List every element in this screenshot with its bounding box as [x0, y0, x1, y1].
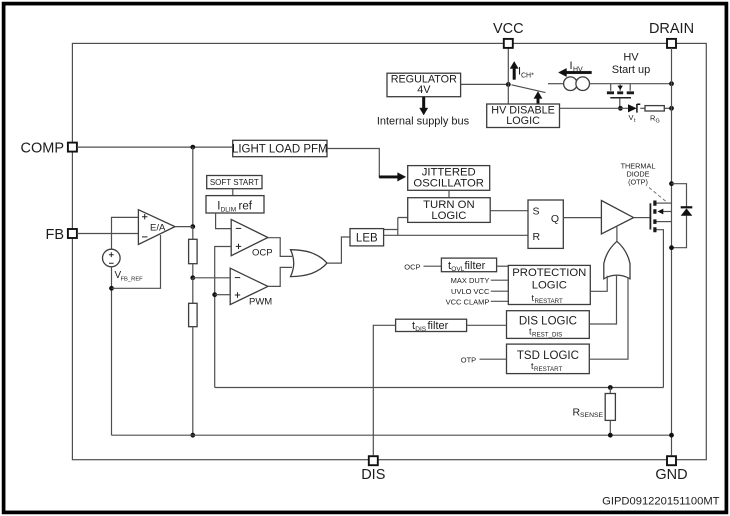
svg-text:SENSE: SENSE — [580, 412, 604, 419]
arrow internal supply bus — [420, 97, 428, 115]
svg-text:OTP: OTP — [461, 355, 476, 364]
protection logic block — [508, 265, 590, 304]
svg-text:G: G — [656, 119, 660, 125]
comparator OCP — [231, 219, 272, 258]
svg-text:REST_DIS: REST_DIS — [532, 331, 562, 338]
node gate / lower wire — [618, 106, 623, 111]
wire E/A feedback to node — [112, 235, 161, 288]
wire OR2 output to driver — [616, 227, 618, 242]
label thermal diode (OTP) — [621, 161, 666, 201]
wire sense rail to OCP plus — [215, 247, 232, 388]
wire soft start to idlim ref — [232, 189, 234, 196]
wire E/A non-inverting input to VFB_REF — [112, 217, 139, 249]
tOVL filter block — [441, 258, 496, 273]
svg-text:filter: filter — [428, 320, 449, 332]
wire current sense rail — [215, 387, 664, 389]
thermal diode D-OTP — [672, 184, 693, 248]
wire OTP to TSD logic — [480, 358, 507, 360]
wire OR1 output to LEB — [327, 237, 350, 263]
svg-text:GND: GND — [655, 467, 687, 483]
svg-text:CH*: CH* — [521, 73, 534, 80]
jittered oscillator block — [408, 166, 490, 191]
svg-text:R: R — [533, 231, 541, 243]
power MOSFET Q1 channel segments — [653, 201, 656, 233]
svg-text:Q: Q — [551, 213, 559, 225]
svg-text:GIPD091220151100MT: GIPD091220151100MT — [602, 496, 720, 508]
svg-text:LOGIC: LOGIC — [532, 280, 567, 292]
svg-text:DRAIN: DRAIN — [649, 21, 694, 37]
node Rsense top — [608, 385, 613, 390]
svg-text:S: S — [533, 206, 540, 218]
svg-text:OCP: OCP — [404, 262, 420, 271]
svg-text:HV: HV — [623, 52, 639, 64]
svg-text:VCC CLAMP: VCC CLAMP — [446, 297, 490, 306]
svg-text:Internal supply bus: Internal supply bus — [377, 116, 470, 128]
node top wire / drain line — [669, 81, 674, 86]
svg-text:UVLO VCC: UVLO VCC — [451, 287, 490, 296]
comparator PWM — [230, 268, 272, 307]
OR gate U-OR1 — [291, 250, 328, 277]
node R2 bottom / ground rail — [190, 433, 195, 438]
node source / diode anode — [669, 245, 674, 250]
label document id — [602, 496, 720, 508]
resistor RG — [645, 106, 664, 125]
node VFB_REF ground tap — [109, 286, 114, 291]
svg-text:SOFT START: SOFT START — [210, 178, 259, 187]
svg-text:filter: filter — [465, 260, 486, 272]
svg-text:TSD LOGIC: TSD LOGIC — [517, 350, 579, 362]
svg-text:LOGIC: LOGIC — [431, 210, 466, 222]
svg-text:RESTART: RESTART — [534, 366, 563, 373]
wire VFB_REF down — [111, 267, 113, 435]
light load pfm block — [232, 140, 328, 156]
power MOSFET Q1 body stub with arrow — [658, 209, 672, 215]
wire TSD logic to OR2 — [589, 278, 628, 359]
latch U-SR — [528, 200, 563, 248]
turn on logic block — [408, 198, 491, 223]
label OCP input — [404, 262, 420, 271]
wire RG to drain line — [664, 107, 671, 109]
wire PWM output to OR — [268, 267, 292, 286]
pin DIS — [361, 456, 385, 483]
wire driver to gate — [634, 217, 650, 219]
switch blade HV disable — [512, 85, 546, 93]
resistor RSENSE — [573, 388, 616, 436]
svg-text:OSCILLATOR: OSCILLATOR — [413, 177, 484, 189]
label Internal supply bus — [377, 116, 470, 128]
svg-text:DLIM: DLIM — [221, 206, 237, 213]
wire diode to RG — [640, 107, 645, 109]
HV start-up MOSFET Q-HV — [607, 84, 634, 109]
label OTP input — [461, 355, 476, 364]
svg-text:DIS: DIS — [415, 326, 427, 333]
inner IC boundary rectangle — [72, 43, 706, 459]
current arrow ICH* — [510, 62, 534, 80]
wire switch to current source — [548, 83, 564, 85]
svg-text:FB: FB — [45, 227, 64, 243]
wire COMP rail vertical — [192, 147, 194, 227]
wire VCC pin down to HV disable logic — [507, 48, 509, 104]
svg-text:(OTP): (OTP) — [628, 178, 648, 187]
wire OCP output to OR — [268, 238, 292, 257]
source VFB_REF — [103, 249, 144, 282]
wire drain vertical rail — [671, 48, 673, 455]
TSD logic block — [507, 344, 590, 374]
svg-text:LOGIC: LOGIC — [506, 115, 540, 127]
svg-text:DIS: DIS — [361, 467, 385, 483]
power MOSFET Q1 gate bar — [649, 203, 651, 229]
driver buffer U-DRV — [601, 201, 633, 235]
soft start block — [207, 176, 262, 189]
arrow from HV disable logic to switch — [534, 92, 542, 105]
power MOSFET Q1 source stub — [657, 230, 664, 388]
svg-text:E/A: E/A — [150, 223, 166, 234]
OR gate U-OR2 (protection, points up) — [604, 241, 630, 278]
wire HV disable logic to Vt diode — [560, 107, 629, 109]
svg-text:Start up: Start up — [612, 64, 651, 76]
wire E/A output — [175, 226, 193, 228]
wire regulator output to VCC node — [461, 83, 509, 85]
tDIS filter block — [396, 319, 467, 333]
pin COMP — [21, 140, 77, 156]
power MOSFET Q1 drain stub — [657, 202, 672, 204]
svg-text:OVL: OVL — [451, 266, 464, 273]
svg-text:COMP: COMP — [21, 140, 65, 156]
svg-text:PROTECTION: PROTECTION — [512, 267, 586, 279]
svg-text:HV: HV — [573, 67, 583, 74]
wire OCP label to tovl filter — [424, 265, 442, 267]
svg-text:RESTART: RESTART — [535, 298, 564, 305]
svg-text:4V: 4V — [417, 84, 431, 96]
wire DIS logic to OR2 — [589, 275, 616, 325]
svg-text:MAX DUTY: MAX DUTY — [451, 276, 490, 285]
svg-text:ref: ref — [239, 200, 253, 212]
wire ground rail — [112, 434, 672, 436]
HV disable logic block — [487, 104, 560, 128]
svg-text:PWM: PWM — [249, 297, 272, 308]
wire idlim ref to OCP inverting input — [216, 213, 232, 229]
node Rsense bottom — [608, 433, 613, 438]
svg-text:FB_REF: FB_REF — [121, 276, 144, 282]
diode VT — [628, 104, 640, 124]
node sense / PWM plus — [212, 292, 217, 297]
wire oscillator to turn on logic — [448, 190, 450, 197]
node divider mid tap — [190, 275, 195, 280]
svg-text:DIS LOGIC: DIS LOGIC — [519, 316, 577, 328]
svg-text:OCP: OCP — [252, 248, 273, 259]
label UVLO VCC — [451, 287, 508, 296]
label VCC CLAMP — [446, 297, 509, 306]
wire sense to PWM plus — [215, 294, 231, 296]
wire protection logic to OR2 — [590, 276, 607, 292]
wire pfm to jittered oscillator (with bold arrow) — [327, 149, 406, 182]
LEB block — [350, 229, 384, 246]
regulator block U-REG — [387, 73, 461, 97]
Idlim reference block — [206, 196, 264, 214]
op-amp E/A — [138, 210, 175, 245]
resistor R1 divider — [189, 227, 198, 278]
pin FB — [45, 227, 76, 243]
wire LEB to latch R and turn-on logic — [384, 218, 528, 236]
current arrow IHV — [559, 60, 592, 77]
wire FB to E/A inverting input — [77, 233, 138, 235]
pin GND — [655, 456, 687, 483]
svg-text:VCC: VCC — [493, 21, 524, 37]
label MAX DUTY — [451, 276, 509, 285]
svg-text:V: V — [629, 113, 634, 122]
pin DRAIN — [649, 21, 694, 48]
node VCC/regulator junction — [506, 82, 511, 87]
node drain / thermal diode — [669, 181, 674, 186]
wire latch Q to driver — [563, 217, 601, 219]
label HV Start up — [612, 52, 651, 77]
resistor R2 divider — [189, 278, 198, 435]
svg-text:LIGHT LOAD PFM: LIGHT LOAD PFM — [232, 143, 328, 155]
wire turn on logic to latch S — [490, 210, 528, 212]
wire DIS pin to tdis filter — [373, 325, 395, 455]
wire tovl filter to protection logic — [497, 265, 509, 267]
DIS logic block — [507, 311, 590, 339]
node E/A output — [190, 224, 195, 229]
wire tdis filter to DIS logic — [467, 324, 507, 326]
current source IHV (two circles) — [564, 77, 590, 91]
wire divider tap to PWM inverting — [193, 277, 230, 279]
svg-text:LEB: LEB — [356, 233, 378, 245]
node ground rail / GND line — [669, 433, 674, 438]
node COMP rail — [190, 145, 195, 150]
node RG/drain line — [669, 106, 674, 111]
wire COMP to light load pfm — [77, 146, 233, 148]
wire current source to drain line — [590, 83, 672, 85]
power MOSFET Q1 substrate stub — [657, 221, 672, 223]
pin VCC — [493, 21, 524, 48]
